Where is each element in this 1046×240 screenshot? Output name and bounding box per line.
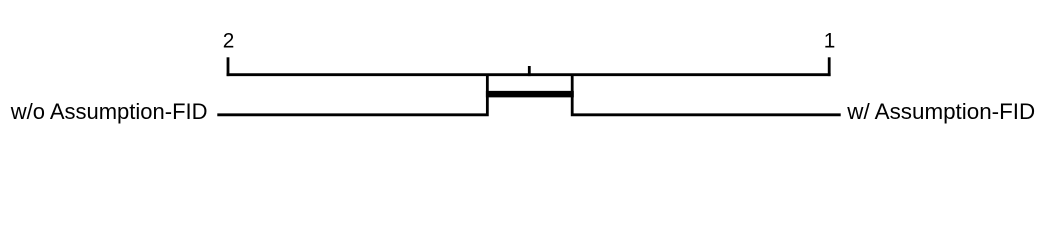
clique bar bbox=[486, 91, 574, 98]
axis tick rank 1 bbox=[828, 57, 831, 76]
axis tick rank 2 bbox=[227, 57, 230, 76]
svg-text:w/ Assumption-FID: w/ Assumption-FID bbox=[846, 99, 1035, 124]
axis minor tick rank 1.5 bbox=[528, 66, 531, 76]
svg-text:1: 1 bbox=[824, 30, 836, 53]
connector line w/o Assumption-FID bbox=[217, 74, 487, 115]
svg-text:2: 2 bbox=[223, 30, 235, 53]
axis line bbox=[227, 73, 831, 76]
critical difference diagram bbox=[0, 0, 1046, 155]
connector line w/ Assumption-FID bbox=[572, 74, 841, 115]
svg-text:w/o Assumption-FID: w/o Assumption-FID bbox=[10, 99, 208, 124]
